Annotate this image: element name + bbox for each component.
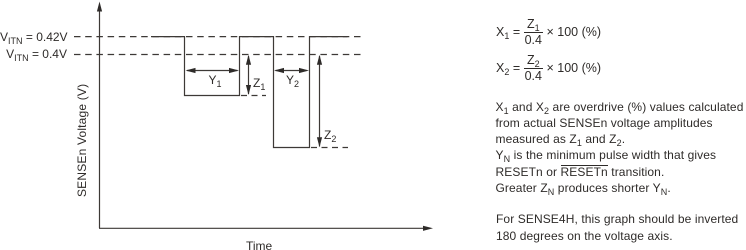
y-axis title SENSEn Voltage (V) xyxy=(76,84,88,197)
dip1 bottom dashed extension xyxy=(241,95,266,97)
Y2 pulse width arrow line xyxy=(276,70,307,72)
y-axis arrowhead xyxy=(97,2,102,12)
Z2 top arrowhead xyxy=(317,55,322,65)
axes and waveform svg xyxy=(0,0,460,250)
Y2 left arrowhead xyxy=(274,68,284,73)
Y2 right arrowhead xyxy=(299,68,309,73)
label Y2 xyxy=(286,73,299,87)
Y1 left arrowhead xyxy=(186,68,196,73)
label Z1 xyxy=(253,76,265,90)
formula X2 = Z2/0.4 x 100 (%) xyxy=(496,53,601,83)
label VITN = 0.4V xyxy=(0,47,67,61)
threshold 0.42V dashed line xyxy=(74,36,365,38)
note SENSE4H xyxy=(496,211,738,244)
threshold 0.4V dashed line xyxy=(74,54,365,56)
formula X1 = Z1/0.4 x 100 (%) xyxy=(496,17,601,47)
label Z2 xyxy=(324,128,336,142)
Y1 right arrowhead xyxy=(229,68,239,73)
SENSEn waveform xyxy=(151,37,348,148)
Z1 top arrowhead xyxy=(246,55,251,65)
Z2 bottom arrowhead xyxy=(317,137,322,147)
x-axis arrowhead xyxy=(423,226,433,231)
y-axis (SENSEn Voltage) xyxy=(99,9,101,228)
Z1 overdrive arrow line xyxy=(248,56,250,94)
Z1 bottom arrowhead xyxy=(246,85,251,95)
x-axis (Time) xyxy=(99,227,426,229)
label VITN = 0.42V xyxy=(0,30,67,44)
Z2 overdrive arrow line xyxy=(319,56,321,147)
x-axis title Time xyxy=(246,239,272,250)
notes paragraph xyxy=(496,99,744,197)
dip2 bottom dashed extension xyxy=(311,147,348,149)
label Y1 xyxy=(209,73,222,87)
Y1 pulse width arrow line xyxy=(187,70,238,72)
